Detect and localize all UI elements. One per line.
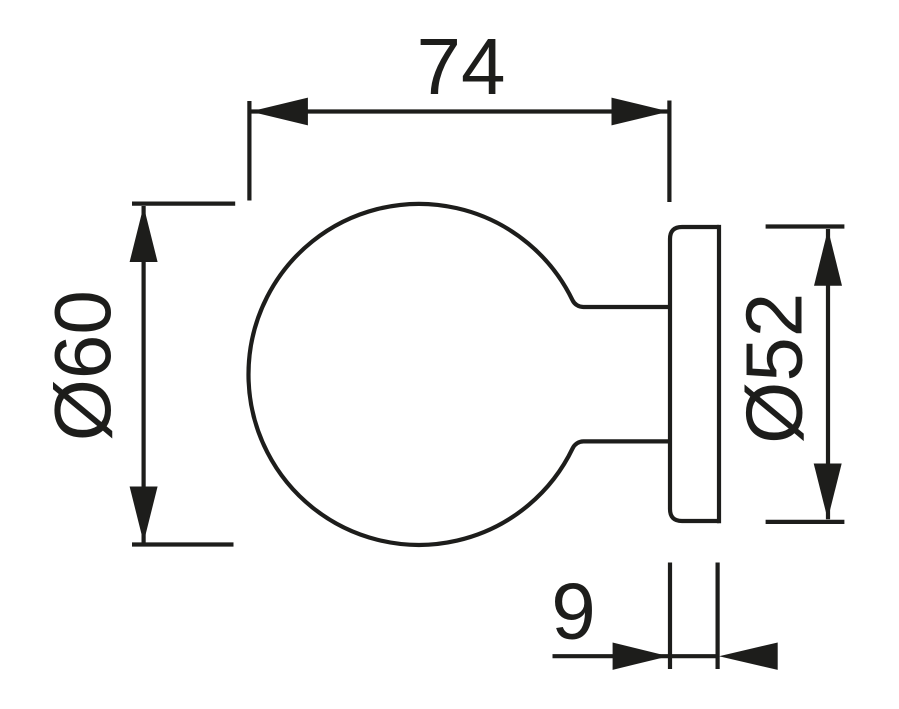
arrowhead 74 left — [251, 98, 308, 126]
arrowhead O52 bottom — [814, 464, 842, 520]
arrowhead O60 bottom — [130, 487, 158, 543]
extension line right of 9 dim — [715, 563, 719, 670]
dimension line 9 with left tail — [553, 654, 718, 658]
knob ball (sphere Ø60) with neck — [248, 204, 670, 545]
extension line bottom of O52 dim — [766, 520, 845, 524]
rose plate (Ø52 x 9) rounded left corners — [670, 227, 719, 521]
extension line right of 74 dim — [667, 101, 671, 203]
arrowhead 9 left (pointing right) — [613, 643, 669, 670]
extension line left of 9 dim — [668, 563, 672, 670]
dimension line O52 — [826, 229, 830, 519]
dimension line 74 — [250, 109, 669, 113]
extension line top of O60 dim — [132, 202, 235, 206]
dimension line O60 — [142, 206, 146, 543]
arrowhead 9 right (pointing left) — [719, 643, 778, 670]
svg-text:74: 74 — [417, 22, 506, 111]
arrowhead 74 right — [612, 98, 670, 126]
arrowhead O52 top — [814, 229, 842, 286]
extension line top of O52 dim — [766, 224, 845, 228]
rose right face line — [717, 225, 721, 523]
svg-text:Ø60: Ø60 — [38, 290, 127, 441]
svg-text:Ø52: Ø52 — [730, 293, 819, 444]
svg-text:9: 9 — [551, 567, 596, 656]
extension line bottom of O60 dim — [132, 542, 234, 546]
arrowhead O60 top — [130, 206, 158, 262]
extension line left of 74 dim — [247, 101, 251, 201]
